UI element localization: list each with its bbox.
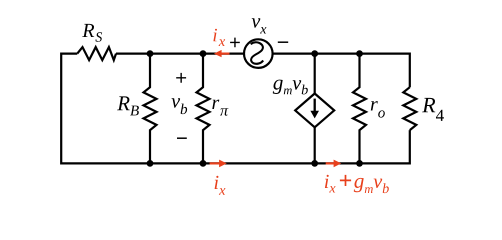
node bottom rpi [200,160,207,167]
label gmvb [273,80,308,95]
resistor R4 [403,87,416,130]
resistor ro with vertical wires [353,54,366,164]
label vx minus sign [278,41,288,43]
current arrow ix+gmvb pointing right [326,160,342,168]
label R4 [422,98,444,121]
label vb minus sign [177,137,187,139]
current arrow ix top pointing left [214,50,230,57]
voltage source vx sine squiggle [251,42,263,64]
label vx [252,18,267,33]
label ix+gmvb gmvb [354,178,389,193]
dependent source arrow [310,99,319,119]
resistor RB with vertical wires [144,54,157,164]
label ix+gmvb i_x [325,175,336,193]
label ix+gmvb plus sign [340,175,351,186]
wire diamond bottom [314,127,316,163]
label RS [82,24,102,42]
voltage source vx circle [244,39,273,68]
node top diamond [311,50,318,57]
label RB [117,96,139,115]
wire left side and bottom rail [61,54,410,164]
node top RB [147,50,154,57]
label vb [172,98,188,114]
label ix top [213,29,225,46]
resistor rpi with vertical wires [197,54,210,164]
wire top rail right of source [273,54,410,88]
node bottom diamond [311,160,318,167]
label ro [371,101,385,118]
node bottom RB [147,160,154,167]
label vx plus sign [230,38,240,48]
wire diamond top [314,54,316,94]
node top rpi [200,50,207,57]
node bottom ro [356,160,363,167]
resistor RS [77,47,116,60]
label vb plus sign [176,73,186,83]
current arrow ix bottom pointing right [210,160,227,168]
dependent source gmvb diamond [295,94,334,128]
label rpi [212,100,228,116]
node top ro [356,50,363,57]
label ix bottom [215,176,226,195]
wire top rail left of source [116,52,244,54]
